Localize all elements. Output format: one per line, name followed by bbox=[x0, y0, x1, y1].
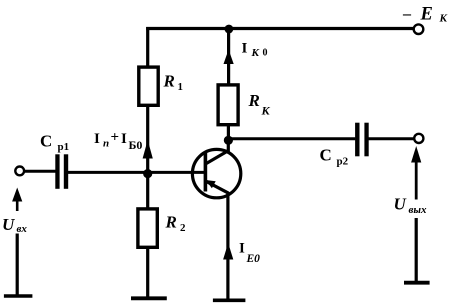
ground bar left bbox=[4, 294, 33, 298]
svg-text:р1: р1 bbox=[58, 141, 70, 153]
label IK0 bbox=[242, 41, 268, 60]
svg-text:Е0: Е0 bbox=[246, 253, 261, 265]
ground bar R2 bbox=[131, 296, 167, 300]
wire emitter down bbox=[226, 192, 229, 300]
svg-text:R: R bbox=[248, 91, 260, 110]
svg-text:C: C bbox=[320, 146, 332, 165]
capacitor Cp2 bbox=[320, 123, 369, 168]
svg-text:R: R bbox=[163, 72, 175, 91]
wire Cp2 to output terminal bbox=[369, 137, 415, 140]
wire Uvyx lower bbox=[415, 218, 418, 283]
node top junction bbox=[225, 25, 234, 34]
wire input terminal to Cp1 bbox=[24, 170, 57, 173]
wire R1 top stub bbox=[146, 27, 149, 67]
wire top rail (-Ek rail) bbox=[146, 27, 414, 30]
arrow Uvx up bbox=[12, 188, 22, 212]
wire Cp1 to base bbox=[68, 171, 205, 174]
top right terminal bbox=[414, 24, 424, 34]
svg-text:I: I bbox=[121, 131, 127, 147]
svg-text:0: 0 bbox=[263, 48, 268, 59]
transistor collector leg bbox=[205, 150, 229, 164]
label Uvx bbox=[2, 215, 27, 235]
arrow divider current up bbox=[143, 140, 153, 159]
arrow IE0 up bbox=[223, 243, 233, 260]
svg-text:К: К bbox=[251, 47, 260, 59]
ground bar right bbox=[404, 281, 430, 285]
resistor R2 bbox=[138, 209, 186, 247]
svg-text:U: U bbox=[2, 215, 15, 234]
node collector junction bbox=[224, 136, 233, 145]
svg-text:C: C bbox=[40, 132, 52, 151]
wire base node to R2 bbox=[146, 175, 149, 208]
arrow Uvyx up bbox=[411, 146, 421, 200]
transistor emitter leg bbox=[206, 181, 229, 193]
svg-text:1: 1 bbox=[178, 81, 184, 93]
svg-text:E: E bbox=[420, 5, 433, 25]
svg-text:К: К bbox=[261, 104, 271, 118]
input terminal bbox=[15, 167, 24, 176]
ground bar emitter bbox=[213, 298, 246, 302]
svg-text:–: – bbox=[402, 6, 412, 23]
svg-text:+: + bbox=[111, 130, 120, 146]
svg-text:R: R bbox=[165, 213, 177, 232]
wire collector stub to node bbox=[227, 139, 230, 152]
label -Ek bbox=[402, 5, 448, 25]
wire top rail to RK bbox=[227, 29, 230, 85]
resistor RK bbox=[218, 85, 270, 125]
wire collector node to Cp2 bbox=[228, 137, 355, 140]
svg-text:I: I bbox=[94, 131, 100, 147]
label In+IB0 bbox=[94, 130, 142, 153]
svg-text:п: п bbox=[103, 138, 109, 150]
svg-text:К: К bbox=[439, 13, 448, 25]
svg-text:Б0: Б0 bbox=[129, 138, 143, 152]
svg-text:2: 2 bbox=[180, 222, 186, 234]
arrow IK0 up bbox=[224, 50, 234, 65]
label IE0 bbox=[239, 241, 260, 266]
transistor emitter arrow (PNP) bbox=[206, 180, 216, 188]
capacitor Cp1 bbox=[40, 132, 69, 189]
wire R1 bottom to base node bbox=[146, 105, 149, 175]
svg-text:вых: вых bbox=[409, 204, 428, 216]
wire Uvx lower bbox=[16, 234, 19, 296]
output terminal bbox=[414, 134, 423, 143]
svg-text:U: U bbox=[394, 195, 407, 214]
resistor R1 bbox=[139, 67, 183, 105]
label Uvyx bbox=[394, 195, 428, 217]
transistor VT circle bbox=[192, 149, 240, 197]
transistor base bar bbox=[204, 153, 208, 192]
svg-text:I: I bbox=[239, 241, 245, 257]
wire R2 bottom bbox=[146, 247, 149, 298]
svg-text:р2: р2 bbox=[337, 156, 349, 168]
node base junction bbox=[143, 169, 152, 178]
svg-text:I: I bbox=[242, 41, 248, 57]
svg-text:вх: вх bbox=[17, 223, 28, 235]
wire RK bottom to collector node bbox=[227, 125, 230, 140]
